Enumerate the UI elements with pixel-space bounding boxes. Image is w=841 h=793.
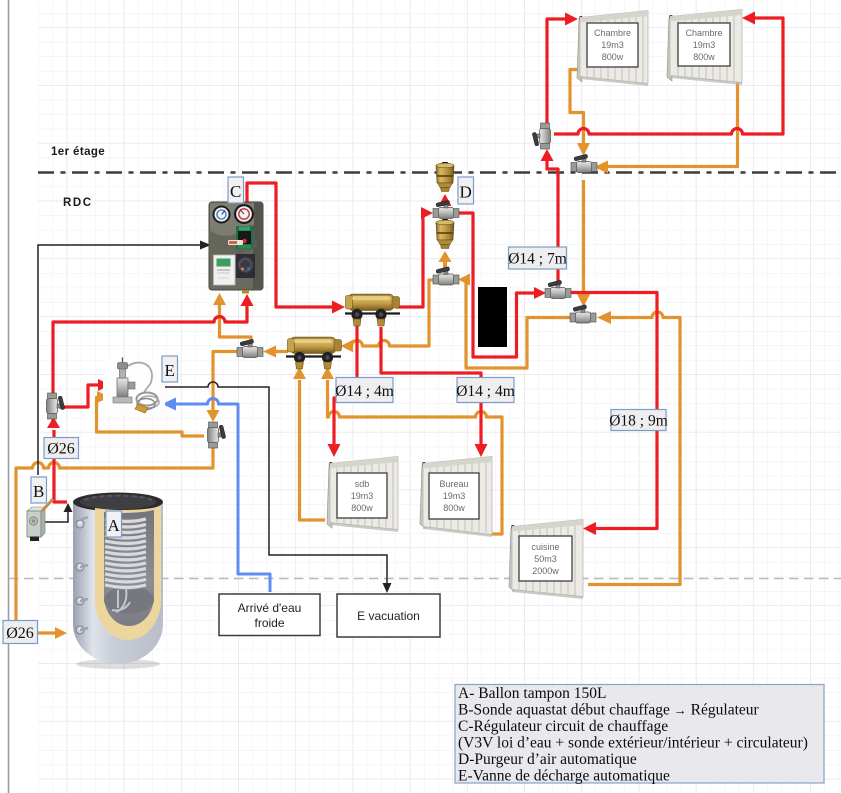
svg-text:E: E	[165, 361, 175, 380]
coil	[105, 519, 146, 588]
wire: chambre-left return down to V7	[570, 70, 584, 145]
svg-text:800w: 800w	[602, 52, 624, 62]
pipe label O14;7m	[508, 247, 567, 269]
arrow into manifold1 left	[332, 301, 345, 314]
svg-text:B-Sonde aquastat début chauffa: B-Sonde aquastat début chauffage → Régul…	[458, 702, 760, 719]
lower dashed level line	[9, 578, 841, 580]
wire: sdb return up to manifold2	[300, 380, 326, 520]
svg-text:Arrivé d'eau: Arrivé d'eau	[238, 601, 302, 615]
wire: V5 top up to pump C	[220, 303, 252, 345]
wire: E to evacuation (hop over orange x213)	[163, 382, 387, 586]
wire: E-return valve down, left (hops over red x53, black x38), down to O26	[16, 447, 213, 622]
svg-text:RDC: RDC	[63, 197, 93, 209]
wire: chambre-right return to V7	[606, 69, 738, 167]
wire: V4 left, down, left, up to valve D2	[462, 280, 570, 368]
arrow up to purgeur P1	[439, 194, 452, 206]
black rectangle (chimney)	[478, 287, 507, 347]
orange arrows	[55, 143, 611, 639]
valve on tank riser	[47, 393, 65, 419]
wire: pump C top to manifold1	[247, 183, 334, 307]
node label B	[31, 477, 47, 503]
svg-text:E-Vanne de décharge automatiqu: E-Vanne de décharge automatique	[458, 768, 670, 785]
arrow into valve D left	[421, 207, 433, 219]
radiator sdb	[327, 457, 398, 533]
wire: cuisine return up and left to V4 (hop over red x657)	[588, 312, 680, 584]
wire: manifold2 left port to valve V5	[276, 350, 288, 353]
svg-text:Bureau: Bureau	[439, 479, 468, 489]
wire: V6 top to chambre-left	[547, 19, 567, 123]
wire: manifold1 drop to sdb	[334, 325, 357, 446]
arrow up into manifold2 valve b	[321, 367, 334, 379]
purgeur d'air D (top)	[436, 162, 454, 192]
arrow up into pump C	[241, 294, 254, 306]
svg-text:Ø18 ; 9m: Ø18 ; 9m	[609, 413, 668, 430]
arrow into V4 right	[597, 311, 611, 324]
valve V7 (upstairs return tee)	[571, 154, 597, 172]
arrow into chambre-left	[565, 13, 578, 26]
arrow up into V6	[541, 149, 554, 161]
valve on E return line	[208, 422, 226, 448]
svg-text:Chambre: Chambre	[594, 28, 631, 38]
arrow up into pump C	[213, 293, 226, 305]
arrow up to tank top	[64, 503, 73, 512]
purgeur d'air 2 (return)	[436, 219, 454, 249]
radiator cuisine	[509, 520, 583, 600]
pipe label O14;4m (right)	[456, 378, 515, 403]
manifold 1 (supply collector)	[345, 294, 400, 326]
vanne de decharge E (relief valve with hose)	[103, 358, 165, 416]
wire: regulator sensor line C to B	[38, 245, 202, 475]
arrow up to purgeur P2	[443, 258, 447, 269]
wire: V5 left then down to E-return valve	[213, 352, 238, 413]
arrow down into evacuation	[383, 583, 392, 593]
wire: V3 top to V6 (upstairs riser)	[547, 161, 558, 285]
node label C	[228, 177, 244, 203]
arrow into V5 right	[263, 346, 276, 358]
red arrows	[47, 12, 755, 536]
svg-text:C-Régulateur circuit de chauff: C-Régulateur circuit de chauffage	[458, 718, 668, 735]
cutaway: insulation + cavity	[95, 506, 161, 640]
arrow down into bureau	[475, 444, 488, 457]
pipe label O26 (lower)	[3, 621, 38, 644]
svg-text:19m3: 19m3	[443, 491, 466, 501]
wire: O26 to tank bottom	[38, 631, 57, 634]
arrow up into tank valve	[47, 417, 60, 428]
wire: manifold1 right to valve D	[396, 213, 424, 307]
wire: B aquastat to tank	[45, 509, 68, 522]
svg-text:800w: 800w	[351, 503, 373, 513]
wire: valve D2 left, down, left to manifold2 (hops over red x384,x357)	[352, 280, 434, 346]
radiator bureau	[420, 457, 492, 538]
node label D	[458, 177, 474, 204]
svg-text:800w: 800w	[693, 52, 715, 62]
pipe label O14;4m (left)	[335, 378, 394, 403]
valve D1 (supply, below purgeur D)	[433, 200, 459, 218]
svg-text:froide: froide	[254, 616, 284, 630]
svg-text:19m3: 19m3	[351, 491, 374, 501]
ballon tampon A (buffer tank)	[73, 493, 163, 670]
pipe label O18;9m	[609, 410, 668, 431]
sonde aquastat B	[27, 499, 53, 541]
floor separator dash-dot (1er etage / RDC)	[38, 171, 841, 174]
arrow into V3 left	[534, 287, 546, 299]
radiator chambre 1 (upstairs left)	[577, 11, 648, 87]
svg-text:Ø14 ; 4m: Ø14 ; 4m	[335, 383, 394, 400]
svg-text:50m3: 50m3	[534, 554, 557, 564]
svg-text:Ø26: Ø26	[6, 625, 34, 642]
arrow into tank bottom	[55, 627, 67, 639]
valve D2 (return, below purgeur 2)	[433, 267, 459, 285]
arrow up into manifold2 valve a	[293, 367, 306, 379]
svg-text:E vacuation: E vacuation	[357, 609, 420, 623]
wire: manifold1 drop to bureau	[381, 327, 481, 446]
svg-text:B: B	[33, 482, 44, 501]
pump group / regulator C	[209, 202, 263, 294]
wire: valve D right, down, to V3	[458, 213, 536, 357]
valve V5 (return tee near pump)	[237, 339, 263, 357]
svg-text:A- Ballon tampon 150L: A- Ballon tampon 150L	[458, 685, 607, 702]
node label A	[106, 511, 122, 537]
side ports	[76, 520, 84, 634]
svg-text:D-Purgeur d’air automatique: D-Purgeur d’air automatique	[458, 751, 637, 768]
box evacuation	[337, 594, 440, 637]
arrow into V4 top	[577, 294, 590, 307]
svg-text:cuisine: cuisine	[531, 542, 559, 552]
wire: V3 right to cuisine	[571, 293, 657, 529]
arrow into V7 top	[577, 143, 590, 156]
svg-text:Ø14 ; 7m: Ø14 ; 7m	[508, 251, 567, 268]
svg-text:2000w: 2000w	[532, 566, 559, 576]
valve V4 (return tee)	[570, 305, 596, 323]
svg-text:19m3: 19m3	[601, 40, 624, 50]
valve V6 (upstairs supply tee)	[532, 123, 550, 149]
wire: tank top to valve, up main riser, over to pump C (hop over orange x219)	[53, 301, 247, 502]
arrow into chambre-right	[742, 12, 755, 25]
arrow into manifold2 right port	[341, 340, 354, 352]
wire: arrivee d'eau froide to E (hop over orange x213)	[176, 399, 270, 593]
wire: bureau return up to manifold2 (hops over red x481,x334)	[328, 380, 503, 534]
legend box	[455, 685, 824, 785]
node label E	[162, 356, 178, 382]
wire: V6 right to chambre-right (hops over orange x583,x737)	[554, 18, 783, 134]
arrow toward E relief valve	[97, 391, 110, 403]
svg-text:D: D	[460, 183, 472, 202]
arrow down into sdb	[328, 444, 341, 457]
svg-text:1er étage: 1er étage	[51, 146, 105, 158]
svg-text:Chambre: Chambre	[685, 28, 722, 38]
pipe label O26 (upper)	[44, 438, 79, 459]
svg-text:800w: 800w	[443, 503, 465, 513]
svg-text:Ø14 ; 4m: Ø14 ; 4m	[456, 383, 515, 400]
radiator chambre 2 (upstairs right)	[667, 10, 742, 86]
arrow into V7 right	[594, 161, 608, 174]
wire: branch to E relief valve	[59, 385, 98, 407]
svg-text:sdb: sdb	[355, 479, 370, 489]
arrow down into E-return valve	[207, 410, 220, 422]
wire: V7 down to V4	[582, 180, 585, 296]
blue arrow toward E	[162, 398, 176, 411]
svg-text:19m3: 19m3	[693, 40, 716, 50]
svg-text:C: C	[230, 182, 241, 201]
arrow into pump C left	[200, 241, 211, 250]
arrow into valve D2 right	[458, 274, 470, 286]
svg-text:A: A	[108, 516, 121, 535]
wire: E discharge line to return valve	[97, 398, 205, 437]
manifold 2 (return collector)	[286, 337, 342, 369]
arrow into cuisine right	[583, 522, 596, 535]
arrow toward E relief valve	[98, 379, 110, 391]
svg-text:(V3V loi d’eau + sonde extérie: (V3V loi d’eau + sonde extérieur/intérie…	[458, 735, 808, 752]
valve V3 (supply tee to upstairs)	[545, 280, 571, 298]
svg-text:Ø26: Ø26	[47, 441, 75, 458]
box arrivee d'eau froide	[219, 594, 320, 636]
